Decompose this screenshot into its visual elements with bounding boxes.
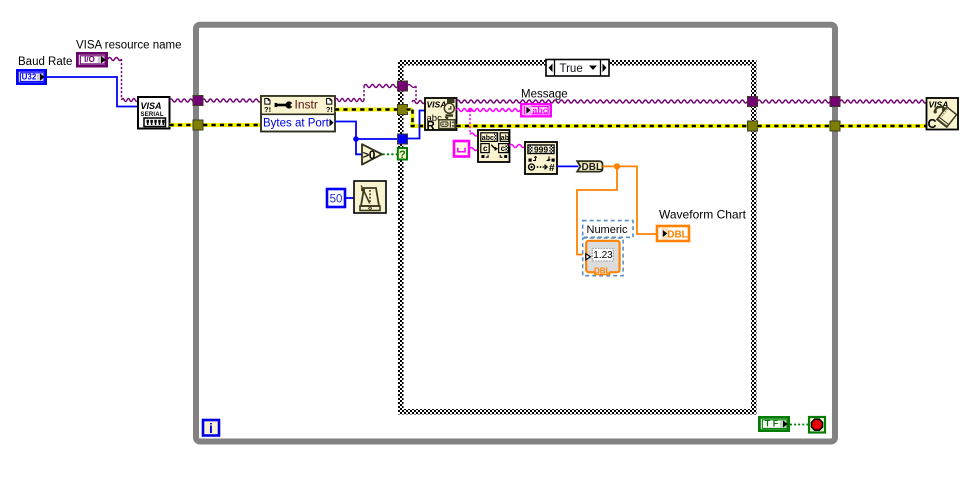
svg-text:VISA: VISA xyxy=(427,100,447,110)
match pattern node xyxy=(478,130,510,162)
svg-text:?!: ?! xyxy=(326,105,333,114)
svg-text:?!: ?! xyxy=(264,105,271,114)
loop iteration terminal xyxy=(203,420,219,436)
wire VISA resource property node to case xyxy=(335,85,398,102)
wire DBL to junction xyxy=(603,165,618,167)
while loop border xyxy=(196,25,835,442)
svg-text:Instr: Instr xyxy=(295,98,318,112)
wire string read buffer to message xyxy=(457,109,520,112)
svg-text:SERIAL: SERIAL xyxy=(141,112,164,118)
wire DBL to numeric xyxy=(577,166,617,254)
tunnel purple left loop border xyxy=(193,96,203,106)
wire VISA resource from I/O control xyxy=(108,58,138,102)
svg-text:T F: T F xyxy=(765,419,779,429)
tunnel purple right loop border xyxy=(830,97,840,107)
svg-text:Baud Rate: Baud Rate xyxy=(18,56,72,68)
wire VISA resource read to case right xyxy=(457,100,748,103)
wait ms node xyxy=(354,181,386,213)
case selector label True xyxy=(546,60,609,77)
decimal string to number node xyxy=(525,142,557,174)
svg-text:c: c xyxy=(501,144,506,153)
svg-text:DBL: DBL xyxy=(582,162,603,173)
case structure border xyxy=(398,60,757,415)
wire error property node to case xyxy=(335,108,398,112)
svg-text:ab: ab xyxy=(501,135,509,142)
svg-text:50: 50 xyxy=(330,194,343,206)
svg-text:abc: abc xyxy=(532,106,548,116)
wire boolean to stop xyxy=(790,424,809,426)
svg-text:0: 0 xyxy=(369,148,376,162)
svg-text:C: C xyxy=(928,117,937,131)
wire error serial to property node xyxy=(170,123,262,127)
numeric control selected xyxy=(583,221,633,276)
wire error case to loop xyxy=(758,124,831,128)
svg-text:R: R xyxy=(427,120,436,132)
numeric constant 50 xyxy=(327,189,345,207)
waveform chart terminal xyxy=(657,226,689,241)
label VISA resource name xyxy=(76,40,181,52)
wire VISA resource case to loop xyxy=(758,100,831,103)
wire error loop to close xyxy=(840,124,927,128)
greater than zero node xyxy=(362,144,382,164)
svg-text:c: c xyxy=(483,144,488,153)
tunnel purple case right xyxy=(748,97,758,107)
to double precision float node xyxy=(577,161,602,173)
svg-text:Waveform Chart: Waveform Chart xyxy=(659,208,747,222)
svg-text:1.23: 1.23 xyxy=(593,250,613,261)
wire bytes down to greater-than-0 xyxy=(356,139,362,154)
property node Bytes at Port xyxy=(261,96,335,132)
loop stop condition terminal xyxy=(809,417,825,433)
tunnel blue case left xyxy=(398,134,408,144)
wire match to decimal string xyxy=(510,145,526,148)
boolean TF control xyxy=(759,417,788,430)
U32 control Baud Rate xyxy=(17,70,45,83)
VISA configure serial port node xyxy=(138,97,170,129)
wire DBL to waveform chart xyxy=(617,166,657,234)
wire boolean to case selector xyxy=(383,153,398,155)
junction bytes wire xyxy=(353,136,359,142)
wire VISA resource loop to close xyxy=(840,100,927,103)
svg-text:abc: abc xyxy=(482,135,494,142)
tunnel error case right xyxy=(748,121,758,131)
svg-text:VISA: VISA xyxy=(141,101,162,111)
wire error read to case right xyxy=(457,124,748,128)
wire number to DBL convert xyxy=(557,165,579,167)
svg-text:DBL: DBL xyxy=(667,230,688,241)
wire VISA resource tunnel to VISA read xyxy=(407,85,426,104)
svg-text:999: 999 xyxy=(534,145,548,155)
svg-text:Bytes at Port: Bytes at Port xyxy=(263,118,330,130)
svg-text:True: True xyxy=(560,63,583,75)
wire 50 to wait xyxy=(345,197,354,199)
case selector tunnel xyxy=(398,148,407,161)
junction string wire xyxy=(468,108,472,112)
junction DBL wire xyxy=(614,163,620,169)
wire baud rate from U32 xyxy=(47,77,138,107)
wire bytes count to junction xyxy=(335,122,356,140)
tunnel error case left xyxy=(398,105,408,115)
label Message xyxy=(521,89,568,101)
svg-text:i: i xyxy=(209,420,213,436)
label Baud Rate xyxy=(18,56,72,68)
I/O control VISA resource name xyxy=(77,53,106,66)
svg-text:Message: Message xyxy=(521,89,568,101)
VISA read node xyxy=(425,98,457,132)
VISA close node xyxy=(203,98,958,436)
wire bytes tunnel to VISA read xyxy=(407,111,426,139)
wire string down to match pattern xyxy=(470,110,478,136)
svg-text:Numeric: Numeric xyxy=(587,224,628,236)
tunnel error right loop border xyxy=(830,121,840,131)
tunnel purple case left xyxy=(398,81,408,91)
wire VISA resource serial to property node xyxy=(170,99,262,102)
wire bytes to blue tunnel xyxy=(356,138,398,140)
svg-text:U32: U32 xyxy=(22,73,37,82)
svg-text:#: # xyxy=(549,163,555,174)
wire space to match pattern xyxy=(469,148,478,151)
svg-text:VISA resource name: VISA resource name xyxy=(76,40,181,52)
svg-text:I/O: I/O xyxy=(84,55,95,64)
label Waveform Chart xyxy=(659,208,747,222)
svg-text:DBL: DBL xyxy=(594,266,611,275)
wire error tunnel to VISA read xyxy=(407,110,426,127)
string indicator Message xyxy=(521,104,551,116)
space character constant xyxy=(454,141,469,157)
tunnel error left loop border xyxy=(193,120,203,130)
svg-text:?: ? xyxy=(399,149,406,161)
